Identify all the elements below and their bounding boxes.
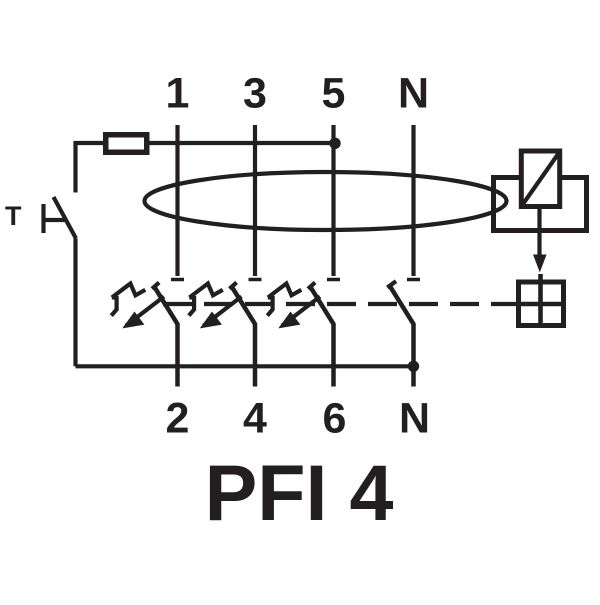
trip arrow pole 1 shaft: [126, 297, 164, 326]
wire test circuit bottom: [76, 364, 414, 368]
svg-text:1: 1: [166, 70, 190, 118]
svg-text:N: N: [399, 395, 430, 443]
trip zigzag pole 1: [111, 297, 116, 315]
resistor R (test resistor): [106, 135, 147, 153]
wire L1 (terminal 1 to contact): [175, 125, 179, 276]
wire relay to trip mechanism: [537, 207, 541, 257]
svg-text:T: T: [5, 201, 22, 231]
contact pole 3 tick: [308, 282, 315, 288]
mechanical linkage (dashed): [163, 302, 518, 306]
svg-text:5: 5: [322, 70, 346, 118]
secondary winding loop wire: [494, 178, 587, 231]
contact fixed tick pole 3: [327, 278, 340, 282]
svg-text:3: 3: [243, 70, 267, 118]
svg-text:2: 2: [166, 395, 190, 443]
relay K (residual current release): [521, 151, 559, 207]
contact fixed tick pole 1: [171, 278, 184, 282]
trip arrow pole 1 head: [122, 312, 144, 329]
trip arrow pole 3 shaft: [282, 297, 320, 326]
contact pole 1 tick: [152, 282, 159, 288]
wire L3 (terminal 5 to contact): [331, 125, 335, 276]
contact pole N tick: [387, 281, 396, 287]
wire L2 (terminal 3 to contact): [253, 125, 257, 276]
svg-text:6: 6: [323, 395, 347, 443]
contact pole 1 blade: [154, 286, 178, 387]
current transformer toroid core: [145, 172, 507, 230]
junction dot on line 5: [329, 138, 340, 149]
svg-text:N: N: [398, 70, 429, 118]
trip arrow pole 2 head: [200, 312, 222, 329]
test switch T fixed contact: [44, 204, 66, 233]
contact pole 2 tick: [230, 282, 237, 288]
contact pole 2 blade: [231, 286, 255, 387]
wire test circuit left: [73, 239, 77, 367]
trip arrow pole 2 shaft: [204, 297, 242, 326]
contact pole 3 blade: [310, 286, 334, 387]
junction dot on N bottom: [408, 361, 419, 372]
svg-text:PFI 4: PFI 4: [205, 448, 394, 537]
trip zigzag pole 2: [189, 297, 194, 315]
trip arrow pole 3 head: [278, 312, 300, 329]
svg-text:4: 4: [243, 395, 267, 443]
contact fixed tick pole 2: [249, 278, 262, 282]
wire N (terminal N to contact): [411, 125, 415, 276]
arrow trip action: [533, 255, 547, 273]
contact pole N blade: [390, 286, 414, 387]
test switch T blade: [54, 197, 77, 239]
wire test circuit top: [76, 143, 336, 193]
contact fixed tick pole N: [407, 278, 420, 282]
trip mechanism (latch box): [519, 274, 564, 326]
trip zigzag pole 3: [267, 297, 272, 315]
